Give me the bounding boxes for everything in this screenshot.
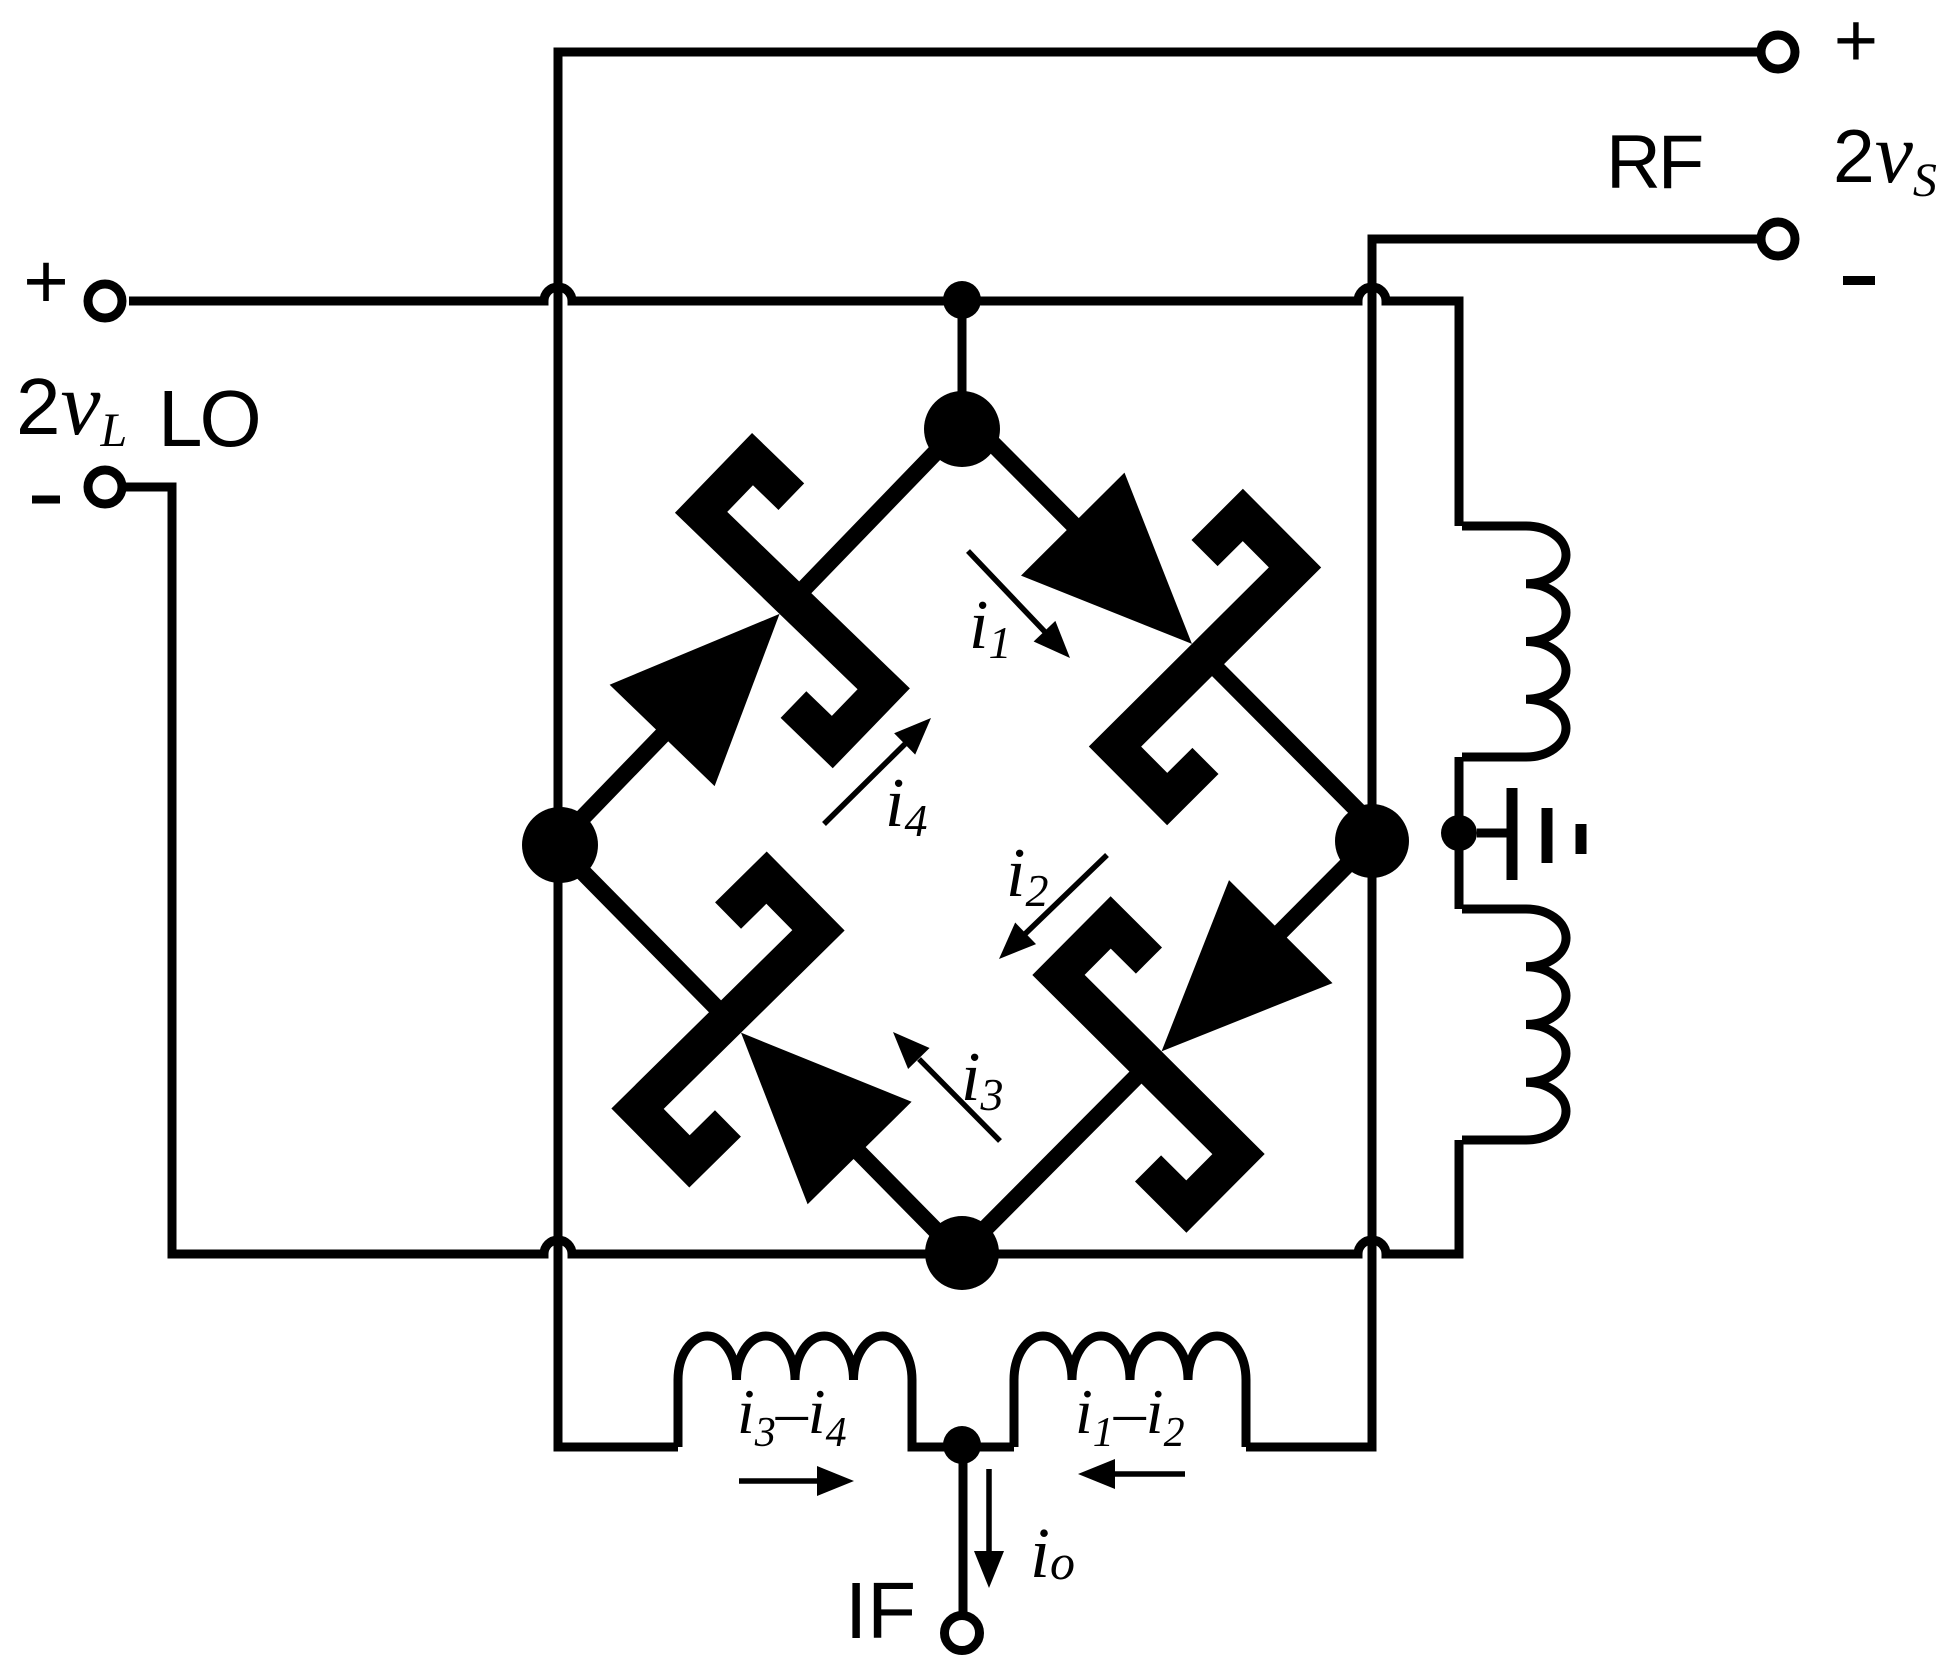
junction dot IF center tap (943, 1426, 981, 1464)
inductor L3 bottom left coil (i3-i4) (678, 1336, 1014, 1447)
wire: LO- down the left side and bottom line with hops, corner up at x=1459 (126, 487, 1459, 1254)
current arrow io (986, 1469, 992, 1556)
diode D3 bottom-left edge (449, 739, 1070, 1363)
node top (924, 391, 1000, 467)
wire: RF- from terminal left then down x=1372 to bottom coil right end (1246, 239, 1757, 1447)
svg-text:i3: i3 (961, 1039, 1003, 1120)
terminal RF- (1761, 222, 1795, 256)
current arrow i1 (968, 551, 1046, 633)
inductor L1 top right coil (1462, 526, 1566, 757)
terminal RF+ (1761, 35, 1795, 69)
arrow i3-i4 (points right) (739, 1478, 824, 1484)
wire: LO+ horizontal line A with hops at x=558 and x=1372, corner down at x=1459 (129, 287, 1459, 526)
svg-text:RF: RF (1606, 120, 1702, 205)
svg-text:IF: IF (845, 1566, 916, 1655)
diode D4 left-top edge (452, 320, 1071, 946)
wire: stub from line A down to bridge top node (958, 301, 967, 429)
label - (LO) (32, 496, 60, 504)
arrow i1-i2 (points left) (1108, 1471, 1185, 1477)
node left (522, 807, 598, 883)
svg-text:i2: i2 (1006, 835, 1048, 916)
junction dot on line A (943, 281, 981, 319)
node bottom (925, 1216, 999, 1290)
current arrow i2 (1025, 855, 1107, 934)
inductor L4 bottom right coil (i1-i2) (1014, 1336, 1246, 1447)
svg-text:i3–i4: i3–i4 (737, 1376, 847, 1456)
diode D2 right-bottom edge (869, 721, 1491, 1344)
svg-text:2vS: 2vS (1833, 105, 1937, 207)
terminal LO+ (88, 284, 122, 318)
wire: IF stem from center tap down to IF terminal (959, 1447, 968, 1612)
current arrow i3 (919, 1059, 1000, 1141)
svg-text:i1–i2: i1–i2 (1075, 1376, 1185, 1456)
svg-text:2vL: 2vL (16, 355, 127, 457)
ground symbol (1477, 829, 1509, 838)
label - (RF) (1843, 276, 1875, 285)
inductor L2 bottom right coil (1462, 909, 1566, 1140)
junction dot ground tap (1441, 815, 1477, 851)
svg-text:+: + (23, 237, 69, 325)
terminal IF (945, 1616, 980, 1651)
node right (1335, 804, 1409, 878)
terminal LO- (88, 470, 122, 504)
svg-text:i4: i4 (885, 765, 927, 846)
svg-text:io: io (1030, 1513, 1075, 1593)
diode D1 top-right edge (862, 313, 1484, 936)
svg-text:+: + (1834, 0, 1878, 83)
svg-text:i1: i1 (969, 587, 1011, 668)
current arrow i4 (824, 744, 905, 824)
svg-text:LO: LO (158, 374, 259, 463)
wire: RF+ top wire with left corner down to vertical B (558, 52, 1757, 1447)
wire: right coil inter-segment x=1459 (1455, 757, 1464, 909)
